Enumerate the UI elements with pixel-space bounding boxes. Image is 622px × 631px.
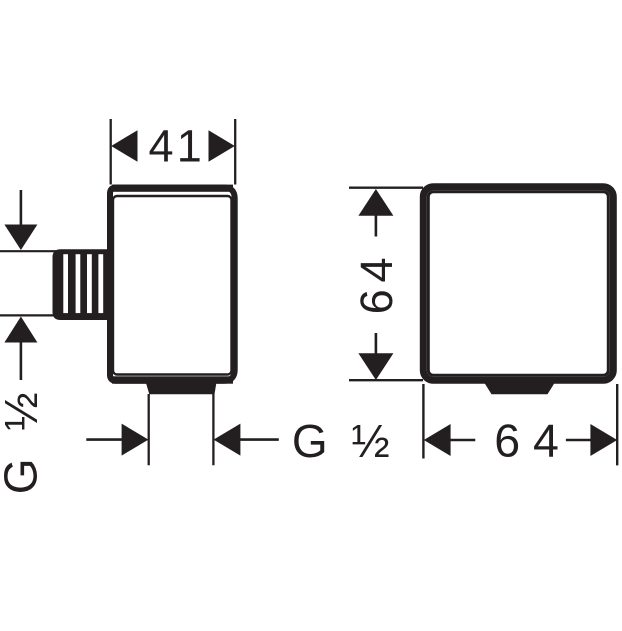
G1/2 arrow up — [4, 317, 37, 343]
svg-text:6: 6 — [494, 414, 520, 466]
front bottom dim extension right — [616, 384, 618, 465]
side view base — [145, 379, 217, 394]
front vert dim extension top — [349, 186, 423, 188]
G1/2 bottom extension line — [0, 314, 56, 316]
svg-text:4: 4 — [533, 414, 559, 466]
base dim arrow pointing left — [214, 424, 241, 456]
front vert dim extension bottom — [349, 379, 423, 381]
base dim extension left — [148, 394, 150, 465]
front bottom dim arrow pointing left — [424, 424, 451, 456]
svg-text:½: ½ — [351, 415, 389, 467]
side view body outline — [110, 188, 235, 381]
base dim left tail — [86, 438, 122, 441]
svg-text:G: G — [292, 415, 328, 467]
G1/2 dim line top — [20, 190, 23, 226]
svg-text:1: 1 — [177, 120, 202, 171]
svg-text:6: 6 — [351, 289, 402, 314]
thread connector body — [53, 249, 109, 320]
G1/2 dim line bottom — [20, 341, 23, 380]
front bottom dim extension left — [422, 384, 424, 459]
dim 41 label — [148, 120, 201, 171]
side view body bottom edge bar — [112, 376, 233, 383]
front vert dim bottom tail — [375, 333, 378, 354]
svg-text:4: 4 — [351, 257, 402, 282]
front vert dim arrow down — [358, 353, 393, 380]
thread stripe 2 — [76, 254, 81, 313]
G1/2 top extension line — [0, 250, 56, 252]
front vert dim top tail — [375, 215, 378, 237]
thread stripe 1 — [63, 254, 68, 313]
dim 41 arrow right — [209, 130, 235, 162]
thread stripe 4 — [98, 254, 103, 313]
base dim extension right — [212, 394, 214, 465]
thread stripe 3 — [87, 254, 92, 313]
svg-text:½: ½ — [0, 392, 47, 430]
svg-text:4: 4 — [148, 120, 173, 171]
front view base notch — [482, 379, 557, 394]
side view body face inner line — [113, 196, 232, 375]
front view outline inner — [428, 192, 608, 376]
svg-text:G: G — [0, 459, 47, 495]
front bottom dim right tail — [566, 439, 591, 442]
front bottom dim arrow pointing right — [590, 424, 617, 456]
side view body top edge bar — [112, 185, 233, 192]
front bottom dim left tail — [450, 439, 475, 442]
G1/2 arrow down — [4, 225, 37, 251]
front vert dim arrow up — [358, 189, 393, 216]
dim 41 extension line right — [234, 119, 236, 185]
dim 41 arrow left — [111, 130, 137, 162]
front view outline outer — [423, 187, 613, 381]
dim 41 extension line left — [110, 119, 112, 185]
base dim arrow pointing right — [122, 424, 149, 456]
base dim right tail — [240, 438, 279, 441]
